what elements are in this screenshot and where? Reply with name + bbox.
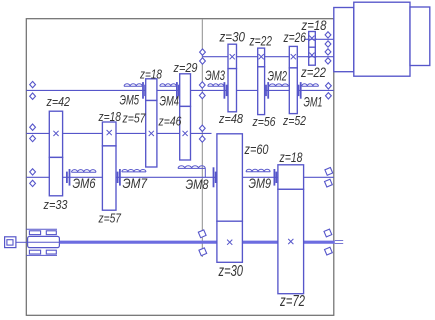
gear z=60 on shaft IV: [217, 134, 243, 221]
svg-text:z=29: z=29: [173, 60, 198, 75]
svg-text:ЭМ6: ЭМ6: [73, 175, 96, 191]
shaft I (y=56.7): [202, 56, 333, 58]
electric motor body: [354, 2, 410, 76]
clutch EM3 discs: [223, 82, 225, 99]
svg-text:z=60: z=60: [244, 141, 269, 157]
x-mark z=18 col2: [107, 130, 112, 135]
svg-text:z=22: z=22: [249, 33, 272, 49]
chuck top line: [26, 228, 57, 230]
svg-text:ЭМ3: ЭМ3: [205, 67, 225, 83]
x-mark z=26 shaft I: [291, 54, 296, 59]
gear z=48 on shaft II: [228, 69, 237, 112]
shaft IV (y=177.3): [26, 176, 334, 178]
bearing shaft IV left: [30, 169, 36, 175]
chuck axis line: [26, 241, 60, 243]
bearing shaft I right: [325, 49, 331, 55]
clutch EM7 discs: [119, 169, 121, 186]
svg-text:ЭМ2: ЭМ2: [268, 68, 288, 84]
chuck body: [28, 236, 60, 247]
svg-text:ЭМ9: ЭМ9: [249, 175, 272, 191]
svg-text:z=46: z=46: [158, 114, 182, 129]
clutch EM8 discs: [213, 167, 215, 187]
chuck bottom jaw right: [46, 250, 56, 254]
clutch EM9 discs: [273, 169, 275, 186]
clutch EM1 discs: [300, 82, 302, 99]
vertical section line: [201, 19, 203, 257]
bearing shaft II mid: [199, 82, 205, 88]
x-mark z=30 spindle: [227, 240, 232, 245]
electric motor left flange: [334, 8, 354, 72]
svg-text:z=18: z=18: [139, 67, 162, 82]
gear z=57 on shaft IV (col2): [102, 146, 116, 210]
electric motor right flange: [410, 7, 430, 66]
svg-text:z=22: z=22: [300, 64, 326, 80]
x-mark z=72 spindle: [288, 239, 293, 244]
chuck bottom line: [26, 254, 57, 256]
x-mark z=46: [183, 131, 188, 136]
gear z=57 on shaft III (col1): [146, 101, 157, 168]
svg-text:ЭМ8: ЭМ8: [186, 176, 209, 192]
bearing shaft II right: [326, 83, 332, 89]
gear z=46 on shaft III: [180, 106, 191, 160]
bearing shaft III mid: [199, 125, 205, 131]
clutch EM5 coil: [124, 84, 142, 87]
gear z=18 on motor shaft: [309, 32, 316, 48]
clutch EM2 discs: [267, 82, 269, 99]
clutch EM2 coil: [269, 84, 288, 86]
shaft V spindle thick: [60, 241, 335, 244]
clutch EM6 coil: [72, 170, 97, 173]
svg-text:z=57: z=57: [122, 111, 146, 126]
gear z=18 on shaft IV (right): [278, 165, 304, 190]
gear z=30 on spindle: [217, 221, 243, 262]
gear z=18 on shaft III (col2): [102, 122, 116, 146]
clutch EM7 coil: [122, 169, 146, 171]
gear z=22 on shaft I: [258, 48, 265, 67]
gear z=56 on shaft II: [258, 67, 265, 115]
shaft 0 motor input (y=39.3): [304, 38, 334, 40]
chuck link line: [16, 241, 28, 243]
clutch EM4 discs: [176, 82, 178, 99]
svg-text:z=18: z=18: [98, 109, 122, 124]
bearing shaft IV right: [323, 166, 334, 177]
clutch EM5 discs: [142, 82, 144, 99]
x-mark z=42: [53, 131, 58, 136]
spindle end stub lines: [335, 240, 343, 242]
bearing shaft II left: [30, 81, 36, 87]
svg-text:z=30: z=30: [218, 263, 243, 280]
clutch EM8 coil: [178, 166, 205, 169]
clutch EM1 coil: [302, 84, 319, 87]
svg-text:z=30: z=30: [219, 29, 246, 45]
gear z=42 on shaft III: [49, 111, 62, 157]
shaft III (y=133.4): [26, 132, 211, 134]
svg-text:z=18: z=18: [279, 149, 303, 165]
bearing shaft I mid: [200, 49, 206, 55]
svg-text:z=18: z=18: [301, 17, 327, 33]
bearing shaft III left: [30, 124, 36, 130]
gear z=26 on shaft I: [289, 46, 297, 68]
bearing spindle right: [322, 228, 333, 239]
chuck top jaw left: [29, 231, 40, 235]
clutch EM9 coil: [246, 169, 270, 172]
x-mark z=22 shaft I: [259, 54, 264, 59]
chuck pilot square outer: [5, 237, 16, 248]
clutch EM4 coil: [160, 84, 177, 87]
gear z=72 on spindle: [278, 189, 304, 293]
chuck bottom jaw left: [29, 250, 40, 254]
bearing motor shaft right: [325, 32, 331, 38]
x-mark z=22 right: [309, 53, 314, 58]
x-mark z=18 motor shaft: [309, 36, 314, 41]
svg-text:z=57: z=57: [98, 211, 122, 226]
clutch EM6 discs: [69, 169, 71, 186]
gear z=18 on shaft II (col1): [146, 79, 157, 101]
svg-text:z=56: z=56: [252, 114, 276, 129]
x-mark z=57 col1: [149, 131, 154, 136]
svg-text:ЭМ4: ЭМ4: [160, 93, 180, 109]
gear z=30 on shaft I: [228, 44, 237, 68]
clutch EM3 coil: [208, 84, 224, 87]
svg-text:ЭМ7: ЭМ7: [123, 175, 149, 191]
svg-text:z=72: z=72: [279, 293, 305, 310]
shaft segments through z=18/z=22 block: [308, 38, 317, 40]
gear z=52 on shaft II: [289, 68, 297, 114]
chuck top jaw right: [46, 231, 56, 235]
gearbox housing frame: [26, 19, 334, 316]
gear z=22 on shaft I (right): [309, 47, 316, 65]
chuck pilot square inner: [7, 240, 13, 245]
svg-text:ЭМ1: ЭМ1: [304, 94, 323, 110]
svg-text:z=33: z=33: [43, 197, 68, 212]
shaft II (y=90.4): [26, 89, 334, 91]
x-mark z=30 shaft I: [230, 54, 235, 59]
svg-text:ЭМ5: ЭМ5: [120, 92, 140, 108]
svg-text:z=48: z=48: [218, 111, 243, 126]
svg-text:z=42: z=42: [46, 94, 71, 109]
gear z=33 on shaft IV: [49, 157, 62, 195]
svg-text:z=52: z=52: [282, 113, 306, 128]
bearing spindle mid: [197, 228, 208, 239]
gear z=29 on shaft II: [180, 74, 191, 107]
